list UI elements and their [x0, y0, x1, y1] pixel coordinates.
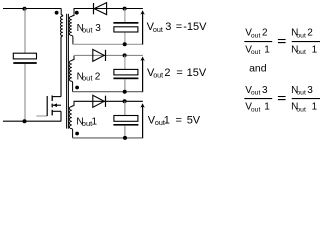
- capacitor C3: [113, 22, 138, 32]
- wire input cap lower lead: [24, 64, 26, 121]
- diode D3 (reversed): [94, 3, 107, 15]
- arrow Vout3: [140, 10, 144, 44]
- node row3 return junction: [123, 42, 127, 46]
- wire input cap upper lead: [24, 9, 26, 54]
- node secondary 3 polarity dot: [75, 11, 79, 15]
- arrow Vout2: [140, 57, 144, 92]
- svg-text:Nout1: Nout1: [76, 117, 97, 128]
- wire row3 top: [74, 8, 143, 10]
- node row1 junction: [123, 99, 127, 103]
- transformer primary winding: [60, 9, 62, 36]
- transformer core: [67, 14, 69, 129]
- node row2 junction: [123, 53, 127, 57]
- diode D2: [93, 49, 106, 61]
- node secondary 1 polarity dot: [75, 132, 79, 136]
- svg-text:Nout2: Nout2: [77, 71, 101, 82]
- transformer secondary Nout3: [69, 9, 74, 45]
- wire cap3 upper stub: [124, 9, 126, 22]
- wire cap2 upper stub: [124, 55, 126, 69]
- wire row1 return rail: [72, 137, 143, 139]
- node row1 return junction: [123, 136, 127, 140]
- node secondary 2 polarity dot: [75, 86, 79, 90]
- wire cap1 lower stub: [124, 126, 126, 138]
- wire cap3 lower stub: [124, 32, 126, 44]
- wire cap2 lower stub: [124, 79, 126, 92]
- wire top input rail: [3, 8, 61, 10]
- transformer secondary Nout2: [69, 55, 74, 91]
- transformer secondary Nout1: [69, 101, 74, 138]
- capacitor Cin: [13, 53, 36, 64]
- node row2 return junction: [123, 90, 127, 94]
- wire row3 return rail: [72, 43, 143, 45]
- wire bottom input rail: [3, 120, 61, 122]
- node bottom junction: [23, 119, 27, 123]
- svg-text:and: and: [249, 63, 267, 75]
- transistor Q1 (MOSFET): [36, 96, 61, 122]
- arrow Vout1: [140, 103, 144, 138]
- wire row2 return rail: [72, 91, 143, 93]
- wire drain to primary: [61, 36, 63, 97]
- equation 1: Vout2/Vout1 = Nout2/Nout1: [244, 28, 320, 57]
- wire cap1 upper stub: [124, 101, 126, 115]
- node row3 junction: [123, 7, 127, 11]
- wire row2 top: [74, 54, 143, 56]
- node primary polarity dot: [55, 11, 59, 15]
- node input junction: [23, 7, 27, 11]
- capacitor C1: [113, 116, 138, 126]
- equation 2: Vout3/Vout1 = Nout3/Nout1: [244, 85, 320, 113]
- diode D1: [93, 95, 106, 107]
- capacitor C2: [113, 69, 138, 79]
- wire row1 top: [74, 100, 143, 102]
- svg-text:Nout3: Nout3: [77, 23, 102, 34]
